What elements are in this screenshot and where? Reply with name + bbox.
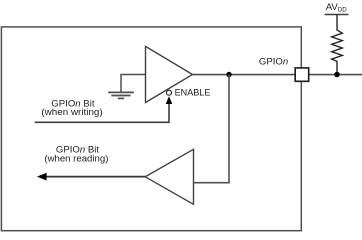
pin pad GPIOn (295, 68, 309, 81)
svg-text:AVDD: AVDD (326, 2, 348, 14)
svg-text:GPIOn: GPIOn (259, 56, 288, 67)
wire: read output with arrow (45, 176, 145, 178)
wire: enable drive with arrow (35, 104, 169, 123)
node: resistor junction (334, 72, 340, 78)
chip boundary box (1, 27, 301, 231)
op-amp output buffer (write) (146, 46, 193, 102)
power rail AVDD (325, 14, 349, 16)
wire: main output line (193, 74, 362, 76)
svg-text:(when reading): (when reading) (44, 154, 108, 165)
node: read tap junction (226, 72, 231, 77)
svg-text:(when writing): (when writing) (41, 107, 102, 118)
wire: read branch (194, 75, 230, 183)
svg-text:ENABLE: ENABLE (175, 88, 211, 99)
op-amp input buffer (read) (145, 149, 193, 204)
wire: write buffer input (121, 75, 146, 93)
ENABLE bubble (167, 90, 172, 95)
ground (108, 92, 134, 98)
resistor pull-up (332, 15, 343, 75)
